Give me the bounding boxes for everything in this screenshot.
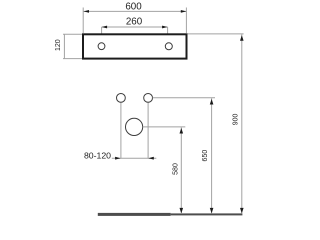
svg-text:650: 650: [202, 150, 209, 162]
svg-text:600: 600: [125, 2, 142, 13]
svg-text:80-120: 80-120: [84, 150, 111, 160]
svg-text:580: 580: [172, 163, 179, 175]
svg-text:260: 260: [126, 17, 143, 28]
svg-text:120: 120: [55, 39, 62, 51]
svg-text:900: 900: [232, 113, 239, 125]
